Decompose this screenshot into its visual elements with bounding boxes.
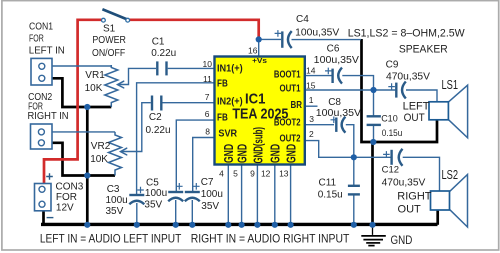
svg-text:6: 6 <box>205 109 210 119</box>
svg-text:10: 10 <box>203 59 213 69</box>
svg-text:C6: C6 <box>327 44 340 55</box>
svg-text:C2: C2 <box>149 112 162 123</box>
svg-text:GND: GND <box>234 144 249 163</box>
svg-text:C3: C3 <box>107 184 120 195</box>
svg-text:RIGHT IN: RIGHT IN <box>28 111 69 122</box>
svg-text:LS1: LS1 <box>442 77 459 92</box>
svg-text:7: 7 <box>205 92 210 102</box>
svg-text:GND: GND <box>283 144 298 163</box>
svg-text:LEFT: LEFT <box>403 101 430 113</box>
svg-text:LEFT IN: LEFT IN <box>29 46 65 57</box>
svg-text:10K: 10K <box>85 83 103 94</box>
svg-text:CON1: CON1 <box>29 22 53 33</box>
svg-text:35V: 35V <box>106 206 124 217</box>
svg-text:C10: C10 <box>381 113 398 123</box>
svg-text:+Vs: +Vs <box>252 56 267 65</box>
svg-text:FB: FB <box>217 78 228 90</box>
svg-text:470u,35V: 470u,35V <box>386 72 430 83</box>
svg-text:RIGHT IN = AUDIO RIGHT INPUT: RIGHT IN = AUDIO RIGHT INPUT <box>191 232 350 246</box>
svg-text:C12: C12 <box>382 165 399 176</box>
svg-text:POWER: POWER <box>92 35 126 46</box>
svg-text:SVR: SVR <box>218 128 237 140</box>
svg-text:IN1(+): IN1(+) <box>217 63 243 75</box>
svg-text:LEFT IN = AUDIO LEFT INPUT: LEFT IN = AUDIO LEFT INPUT <box>40 232 182 246</box>
svg-text:C7: C7 <box>201 177 214 188</box>
svg-text:2: 2 <box>309 129 314 139</box>
svg-text:11: 11 <box>203 74 212 84</box>
svg-text:3: 3 <box>309 114 314 124</box>
svg-text:35V: 35V <box>201 201 219 212</box>
svg-text:C9: C9 <box>386 60 399 71</box>
svg-text:10K: 10K <box>90 154 108 165</box>
svg-text:FOR: FOR <box>56 192 77 203</box>
svg-text:OUT1: OUT1 <box>280 83 301 95</box>
svg-text:BOOT1: BOOT1 <box>274 69 301 81</box>
svg-text:GND(sub): GND(sub) <box>251 127 266 164</box>
svg-text:35V: 35V <box>144 199 162 210</box>
svg-text:9: 9 <box>250 169 255 179</box>
svg-text:C8: C8 <box>328 97 341 108</box>
svg-text:GND: GND <box>391 235 413 247</box>
svg-text:12V: 12V <box>56 203 74 214</box>
svg-text:14: 14 <box>306 65 316 75</box>
svg-text:5: 5 <box>233 169 238 179</box>
svg-text:VR2: VR2 <box>91 141 111 152</box>
svg-text:8: 8 <box>205 126 210 136</box>
svg-text:OUT: OUT <box>398 204 422 216</box>
svg-text:CON3: CON3 <box>56 181 84 192</box>
svg-text:470u,35V: 470u,35V <box>382 177 426 188</box>
svg-text:0.15u: 0.15u <box>318 190 343 201</box>
svg-text:C5: C5 <box>146 177 159 188</box>
svg-text:LS2: LS2 <box>442 167 459 182</box>
svg-text:15: 15 <box>306 80 316 90</box>
svg-text:16: 16 <box>248 45 258 55</box>
svg-text:0.22u: 0.22u <box>146 125 171 136</box>
svg-text:ON/OFF: ON/OFF <box>92 48 125 59</box>
svg-text:0.15u: 0.15u <box>382 128 403 138</box>
svg-text:VR1: VR1 <box>85 70 105 81</box>
svg-text:LS1,LS2 = 8–OHM,2.5W: LS1,LS2 = 8–OHM,2.5W <box>348 27 466 39</box>
svg-text:0.22u: 0.22u <box>151 48 176 59</box>
svg-text:100u,35V: 100u,35V <box>314 55 360 66</box>
svg-text:13: 13 <box>279 169 289 179</box>
svg-text:OUT2: OUT2 <box>280 133 301 145</box>
svg-text:BR: BR <box>291 99 303 111</box>
svg-text:FB: FB <box>217 112 228 124</box>
svg-text:4: 4 <box>219 169 224 179</box>
svg-text:C11: C11 <box>319 178 337 189</box>
svg-text:FOR: FOR <box>29 34 44 45</box>
svg-text:100u,35V: 100u,35V <box>316 108 362 119</box>
svg-text:C1: C1 <box>152 36 165 47</box>
svg-text:100u: 100u <box>106 195 128 206</box>
svg-text:C4: C4 <box>296 14 309 25</box>
svg-text:100u: 100u <box>201 189 223 200</box>
svg-text:100u: 100u <box>145 188 167 199</box>
svg-text:RIGHT: RIGHT <box>397 191 432 203</box>
svg-text:OUT: OUT <box>404 112 425 124</box>
svg-text:TEA 2025: TEA 2025 <box>232 106 288 123</box>
svg-text:GND: GND <box>268 144 283 163</box>
svg-text:100u,35V: 100u,35V <box>295 27 339 38</box>
svg-text:1: 1 <box>309 95 314 105</box>
svg-text:SPEAKER: SPEAKER <box>399 44 448 56</box>
svg-text:12: 12 <box>261 169 271 179</box>
svg-text:S1: S1 <box>103 23 116 34</box>
